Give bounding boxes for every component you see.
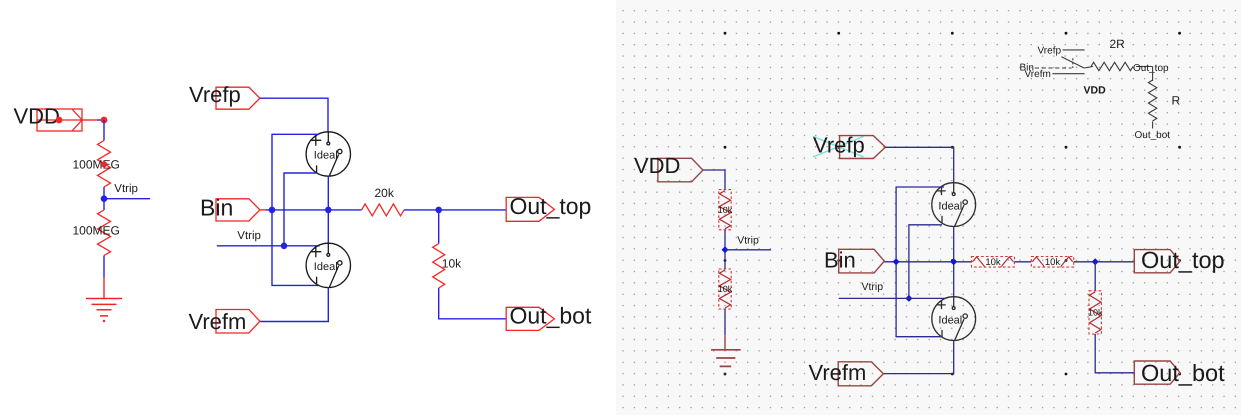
wire R2 to ground (103, 256, 105, 278)
svg-text:10k: 10k (442, 256, 462, 270)
junction Bin right (893, 258, 900, 265)
svg-text:Vtrip: Vtrip (862, 281, 884, 293)
junction Vtrip main (905, 295, 912, 302)
svg-text:Vrefp: Vrefp (189, 82, 241, 107)
svg-text:Vrefm: Vrefm (1025, 69, 1051, 80)
wire Vtrip stub (104, 198, 150, 200)
wire Vrefp to U1 (260, 98, 328, 132)
source U3 Ideal (932, 183, 976, 227)
wire U3 out vertical (953, 227, 955, 297)
port Vrefp right (840, 136, 886, 159)
svg-text:Vrefp: Vrefp (1038, 45, 1062, 56)
svg-text:2R: 2R (1110, 37, 1126, 51)
svg-text:Vrefm: Vrefm (189, 309, 247, 334)
wire Bin stub (260, 209, 266, 211)
svg-text:Out_top: Out_top (510, 193, 592, 219)
wire U1 plus input (272, 134, 319, 285)
port Out_top right (1134, 250, 1180, 273)
port VDD (37, 109, 82, 131)
junction U3 out (950, 258, 957, 265)
svg-text:VDD: VDD (634, 153, 680, 178)
resistor R1 (98, 141, 111, 188)
mini resistor R (1148, 67, 1156, 129)
mini switch arm (1061, 57, 1084, 68)
mini resistor 2R (1084, 62, 1153, 70)
wire R3 to Out_top (404, 209, 506, 211)
svg-text:Ideal: Ideal (938, 200, 962, 212)
svg-text:10k: 10k (985, 257, 1001, 268)
source U4 Ideal (932, 297, 976, 341)
wire R1 to Vtrip (103, 187, 105, 210)
wire VDD right (703, 170, 725, 190)
ground (86, 299, 122, 316)
resistor R2 (98, 210, 111, 256)
wire Vrefp right to U3 (885, 147, 953, 183)
ground right (711, 350, 741, 367)
junction Vtrip row (281, 243, 288, 250)
junction VDD corner (101, 117, 108, 124)
svg-text:Out_bot: Out_bot (510, 303, 592, 329)
wire U1 minus to Vtrip net (284, 173, 317, 246)
wire U2 out to Vrefm net (260, 287, 328, 321)
wire down to R9 (1094, 262, 1096, 291)
svg-text:10k: 10k (1088, 308, 1103, 318)
cyan cross mark (813, 136, 864, 157)
wire Vtrip stub right (725, 249, 771, 251)
resistor R6 10k (719, 269, 731, 309)
svg-text:100MEG: 100MEG (73, 223, 120, 237)
svg-text:20k: 20k (375, 186, 395, 200)
svg-text:Out_bot: Out_bot (1135, 130, 1171, 141)
wire R6 to ground (724, 309, 726, 335)
mini wire Bin dashed (1035, 67, 1072, 69)
resistor R3 20k (362, 204, 404, 216)
node Vtrip (101, 195, 108, 202)
source U2 Ideal (306, 243, 350, 287)
mini control tick dashed (1072, 58, 1074, 68)
svg-text:Vtrip: Vtrip (737, 235, 759, 247)
svg-text:Ideal: Ideal (314, 261, 338, 273)
junction U1 out (325, 207, 332, 214)
svg-text:Out_top: Out_top (1141, 247, 1225, 273)
port Bin right (839, 249, 885, 273)
junction Bin (269, 207, 276, 214)
resistor R9 10k (1089, 291, 1101, 334)
wire Vtrip row right (839, 297, 946, 299)
port Vrefm (216, 310, 260, 334)
junction out divider (435, 207, 442, 214)
svg-text:Out_bot: Out_bot (1141, 360, 1225, 386)
wire Bin row right (884, 261, 971, 263)
port Out_bot (506, 307, 554, 330)
wire VDD to node (82, 119, 97, 121)
port VDD right (658, 158, 703, 182)
port Bin (216, 199, 260, 221)
wire R7 to R8 (1014, 261, 1031, 263)
wire R4 to Out_bot (439, 288, 507, 319)
resistor R5 10k (719, 190, 731, 230)
node Vtrip right (722, 246, 729, 253)
wire U1 out vertical (327, 176, 329, 243)
svg-text:100MEG: 100MEG (73, 157, 120, 171)
wire R5 to R6 (724, 230, 726, 269)
wire R8 to Out_top (1074, 261, 1135, 263)
svg-text:R: R (1172, 94, 1181, 108)
mini schematic wire Vrefp (1063, 49, 1085, 51)
svg-text:Out_top: Out_top (1133, 63, 1169, 74)
wire U3 plus input (896, 187, 944, 337)
wire U3 minus (909, 225, 942, 299)
wire U4 out to Vrefm net (883, 341, 953, 374)
wire Vtrip row (217, 245, 320, 247)
svg-text:VDD: VDD (14, 103, 60, 128)
port Out_top (506, 197, 554, 221)
wire R9 to Out_bot (1095, 334, 1134, 373)
svg-text:VDD: VDD (1084, 85, 1107, 97)
port Out_bot right (1134, 361, 1180, 384)
svg-text:Bin: Bin (200, 195, 233, 221)
svg-text:Vtrip: Vtrip (237, 230, 261, 242)
svg-text:Bin: Bin (824, 247, 856, 272)
wire down to R1 (103, 120, 105, 141)
svg-text:Ideal: Ideal (314, 150, 338, 162)
resistor R4 10k (433, 244, 445, 288)
source U1 Ideal (306, 132, 350, 176)
resistor R7 10K (972, 257, 1015, 268)
junction Out_top node (1092, 258, 1099, 265)
svg-text:Vrefm: Vrefm (809, 360, 867, 385)
port Vrefp (216, 87, 260, 109)
svg-text:Vrefp: Vrefp (813, 132, 865, 157)
svg-text:Ideal: Ideal (938, 314, 962, 326)
mini wire Vrefm (1052, 73, 1084, 75)
red marker on R1 (101, 161, 107, 167)
wire to R4 (438, 210, 440, 244)
svg-text:10k: 10k (718, 205, 733, 215)
svg-text:10k: 10k (718, 284, 733, 294)
port Vrefm right (838, 362, 883, 386)
wire Bin row (266, 209, 362, 211)
resistor R8 10K (1031, 257, 1073, 268)
svg-text:10k: 10k (1045, 257, 1061, 268)
svg-text:Vtrip: Vtrip (114, 183, 138, 195)
